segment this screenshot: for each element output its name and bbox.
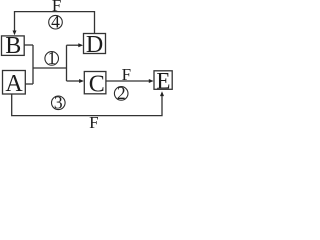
wire branch to D <box>67 44 80 46</box>
arrowhead into node C left <box>79 79 84 83</box>
wire edge A to E bottom route <box>12 94 162 115</box>
node E <box>154 69 172 94</box>
wire merged horizontal to branch <box>33 67 67 69</box>
wire branch vertical <box>66 45 68 81</box>
svg-text:C: C <box>89 72 105 98</box>
svg-text:B: B <box>5 33 21 59</box>
label 4 circled <box>49 12 63 32</box>
label 1 circled <box>45 48 59 68</box>
arrowhead into node E bottom <box>160 91 164 96</box>
wire edge D to B top route <box>15 12 95 34</box>
svg-text:D: D <box>86 32 103 58</box>
svg-text:3: 3 <box>54 93 63 113</box>
wire branch to C <box>67 80 80 82</box>
wire B right stub <box>24 44 33 46</box>
node A <box>3 71 26 98</box>
node D <box>84 32 106 58</box>
label 2 circled <box>114 83 128 103</box>
node B <box>2 33 25 59</box>
wire edge C to E <box>106 80 150 82</box>
wire A right stub <box>25 83 33 85</box>
svg-text:F: F <box>122 65 131 84</box>
node C <box>84 72 106 98</box>
arrowhead into node B top <box>13 31 17 36</box>
svg-text:1: 1 <box>48 48 57 68</box>
svg-text:2: 2 <box>117 83 126 103</box>
svg-text:A: A <box>5 71 23 97</box>
svg-text:E: E <box>156 69 170 94</box>
svg-text:4: 4 <box>51 12 60 32</box>
arrowhead into node E left <box>149 79 154 83</box>
wire merge vertical <box>32 45 34 84</box>
label 3 circled <box>52 93 66 113</box>
svg-text:F: F <box>89 113 98 128</box>
arrowhead into node D left <box>78 43 83 47</box>
